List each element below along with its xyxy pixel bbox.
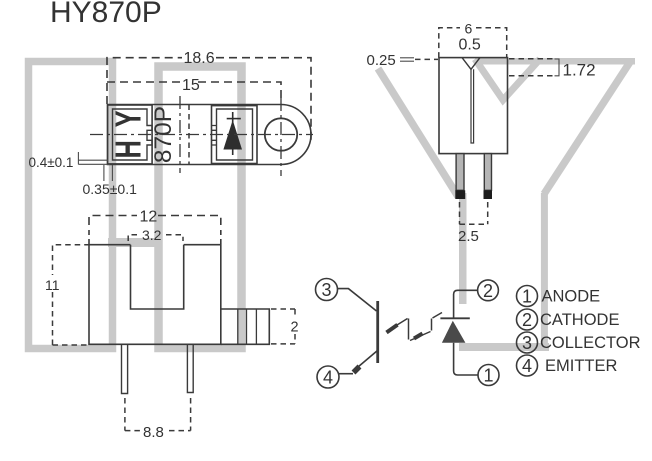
svg-text:11: 11 <box>45 277 60 293</box>
dashed internal boundary line <box>188 105 190 165</box>
svg-text:0.35±0.1: 0.35±0.1 <box>83 181 138 197</box>
dim label 6 <box>465 21 473 37</box>
dim label 8.8 <box>143 424 164 441</box>
dim 2.5 dashed lines <box>460 202 488 224</box>
pin 3 circle <box>316 279 338 301</box>
watermark small V notch <box>475 59 540 100</box>
phototransistor Q1 bar <box>376 301 379 363</box>
watermark stem bottom bar <box>459 343 549 351</box>
side view left lead <box>455 154 465 199</box>
svg-text:HY870P: HY870P <box>50 0 162 29</box>
svg-text:ANODE: ANODE <box>542 288 601 306</box>
legend pin 1 <box>517 286 601 307</box>
svg-text:3.2: 3.2 <box>142 227 162 243</box>
pin 2 circle <box>478 280 499 301</box>
HY text rotated <box>108 110 149 158</box>
svg-text:1: 1 <box>483 366 493 386</box>
svg-text:Y: Y <box>108 110 149 127</box>
front view left leg <box>122 344 128 393</box>
svg-text:3: 3 <box>321 280 331 300</box>
top view body outline with round tab <box>108 105 312 165</box>
svg-text:12: 12 <box>140 208 158 225</box>
watermark bridge bar between towers <box>108 238 161 247</box>
center slot <box>471 69 474 143</box>
legend pin 4 <box>517 355 618 376</box>
watermark left tower 1 outline <box>29 62 113 349</box>
front view right leg <box>187 344 193 392</box>
dim label 0.5 <box>459 37 481 54</box>
emitter wire with arrow <box>338 351 378 374</box>
collector wire <box>337 289 377 311</box>
watermark stem right bar <box>541 193 548 351</box>
svg-text:0.4±0.1: 0.4±0.1 <box>29 155 74 170</box>
watermark stem left bar <box>459 193 467 351</box>
pin 4 circle <box>317 366 339 388</box>
dim 12 dashed line <box>89 216 221 245</box>
svg-text:2.5: 2.5 <box>458 228 479 245</box>
svg-text:1: 1 <box>522 287 532 307</box>
dim label 11 <box>45 277 60 293</box>
svg-text:15: 15 <box>182 77 200 94</box>
dim 11 dashed lines <box>53 245 90 345</box>
dim 1.72 leader <box>509 59 559 76</box>
watermark funnel right arm <box>544 62 630 194</box>
dim 15 leader dashed line <box>107 82 281 98</box>
watermark left tower 2 outline <box>159 67 242 349</box>
dim label 2 <box>291 320 299 336</box>
svg-text:COLLECTOR: COLLECTOR <box>540 334 641 352</box>
LED D1 <box>440 290 477 375</box>
dim label 2.5 <box>458 228 479 245</box>
light arrow zigzag <box>387 313 443 341</box>
svg-text:EMITTER: EMITTER <box>545 357 617 375</box>
dim 6 dashed box <box>439 28 507 58</box>
vertical centerline through hole <box>280 98 282 176</box>
dim 2 dashed lines <box>271 309 295 344</box>
svg-text:2: 2 <box>291 320 299 336</box>
dim 8.8 dashed lines <box>125 398 191 431</box>
mounting hole circle <box>265 118 297 150</box>
LED die box inner with notches <box>212 109 253 160</box>
svg-text:18.6: 18.6 <box>184 50 215 67</box>
870P text rotated <box>150 106 177 163</box>
side view body <box>439 58 508 154</box>
LED die symbol (diode) <box>223 112 242 155</box>
dim label 15 <box>182 77 200 94</box>
HY box inner with notches <box>113 109 153 160</box>
vertical centerline at LED section <box>179 96 181 173</box>
svg-text:8.8: 8.8 <box>143 424 164 441</box>
dim label 1.72 <box>563 61 596 80</box>
svg-text:0.5: 0.5 <box>459 37 481 54</box>
mounting tab with hatch <box>221 309 269 344</box>
V notch <box>462 58 480 70</box>
label 0.4±0.1 with leader <box>29 152 111 170</box>
legend pin 3 <box>517 332 641 353</box>
svg-text:H: H <box>108 140 149 158</box>
horizontal centerline <box>90 134 313 136</box>
svg-text:4: 4 <box>323 368 333 388</box>
svg-text:1.72: 1.72 <box>563 61 596 80</box>
svg-text:CATHODE: CATHODE <box>540 311 619 329</box>
svg-text:0.25: 0.25 <box>367 52 396 69</box>
svg-text:3: 3 <box>522 333 532 353</box>
watermark funnel left arm <box>378 69 458 197</box>
dim 3.2 dashed line <box>128 235 183 241</box>
dim label 12 <box>140 208 158 225</box>
white patch behind LED <box>457 304 469 343</box>
watermark top bar <box>475 58 635 65</box>
label 0.35±0.1 with leader <box>83 165 138 197</box>
HY box outer <box>108 105 152 164</box>
svg-text:6: 6 <box>465 21 473 37</box>
title HY870P <box>50 0 162 29</box>
side view right lead <box>484 154 493 199</box>
svg-text:2: 2 <box>483 281 493 301</box>
dim label 3.2 <box>142 227 162 243</box>
svg-text:4: 4 <box>522 356 532 376</box>
LED die box outer <box>212 106 258 164</box>
dim 18.6 leader dashed line <box>107 58 311 140</box>
svg-text:2: 2 <box>522 310 532 330</box>
legend pin 2 <box>517 309 620 330</box>
front view body outline with slot <box>89 245 221 345</box>
pin 1 circle <box>478 365 499 386</box>
dim label 18.6 <box>184 50 215 67</box>
dim label 0.25 with leader <box>367 52 439 69</box>
